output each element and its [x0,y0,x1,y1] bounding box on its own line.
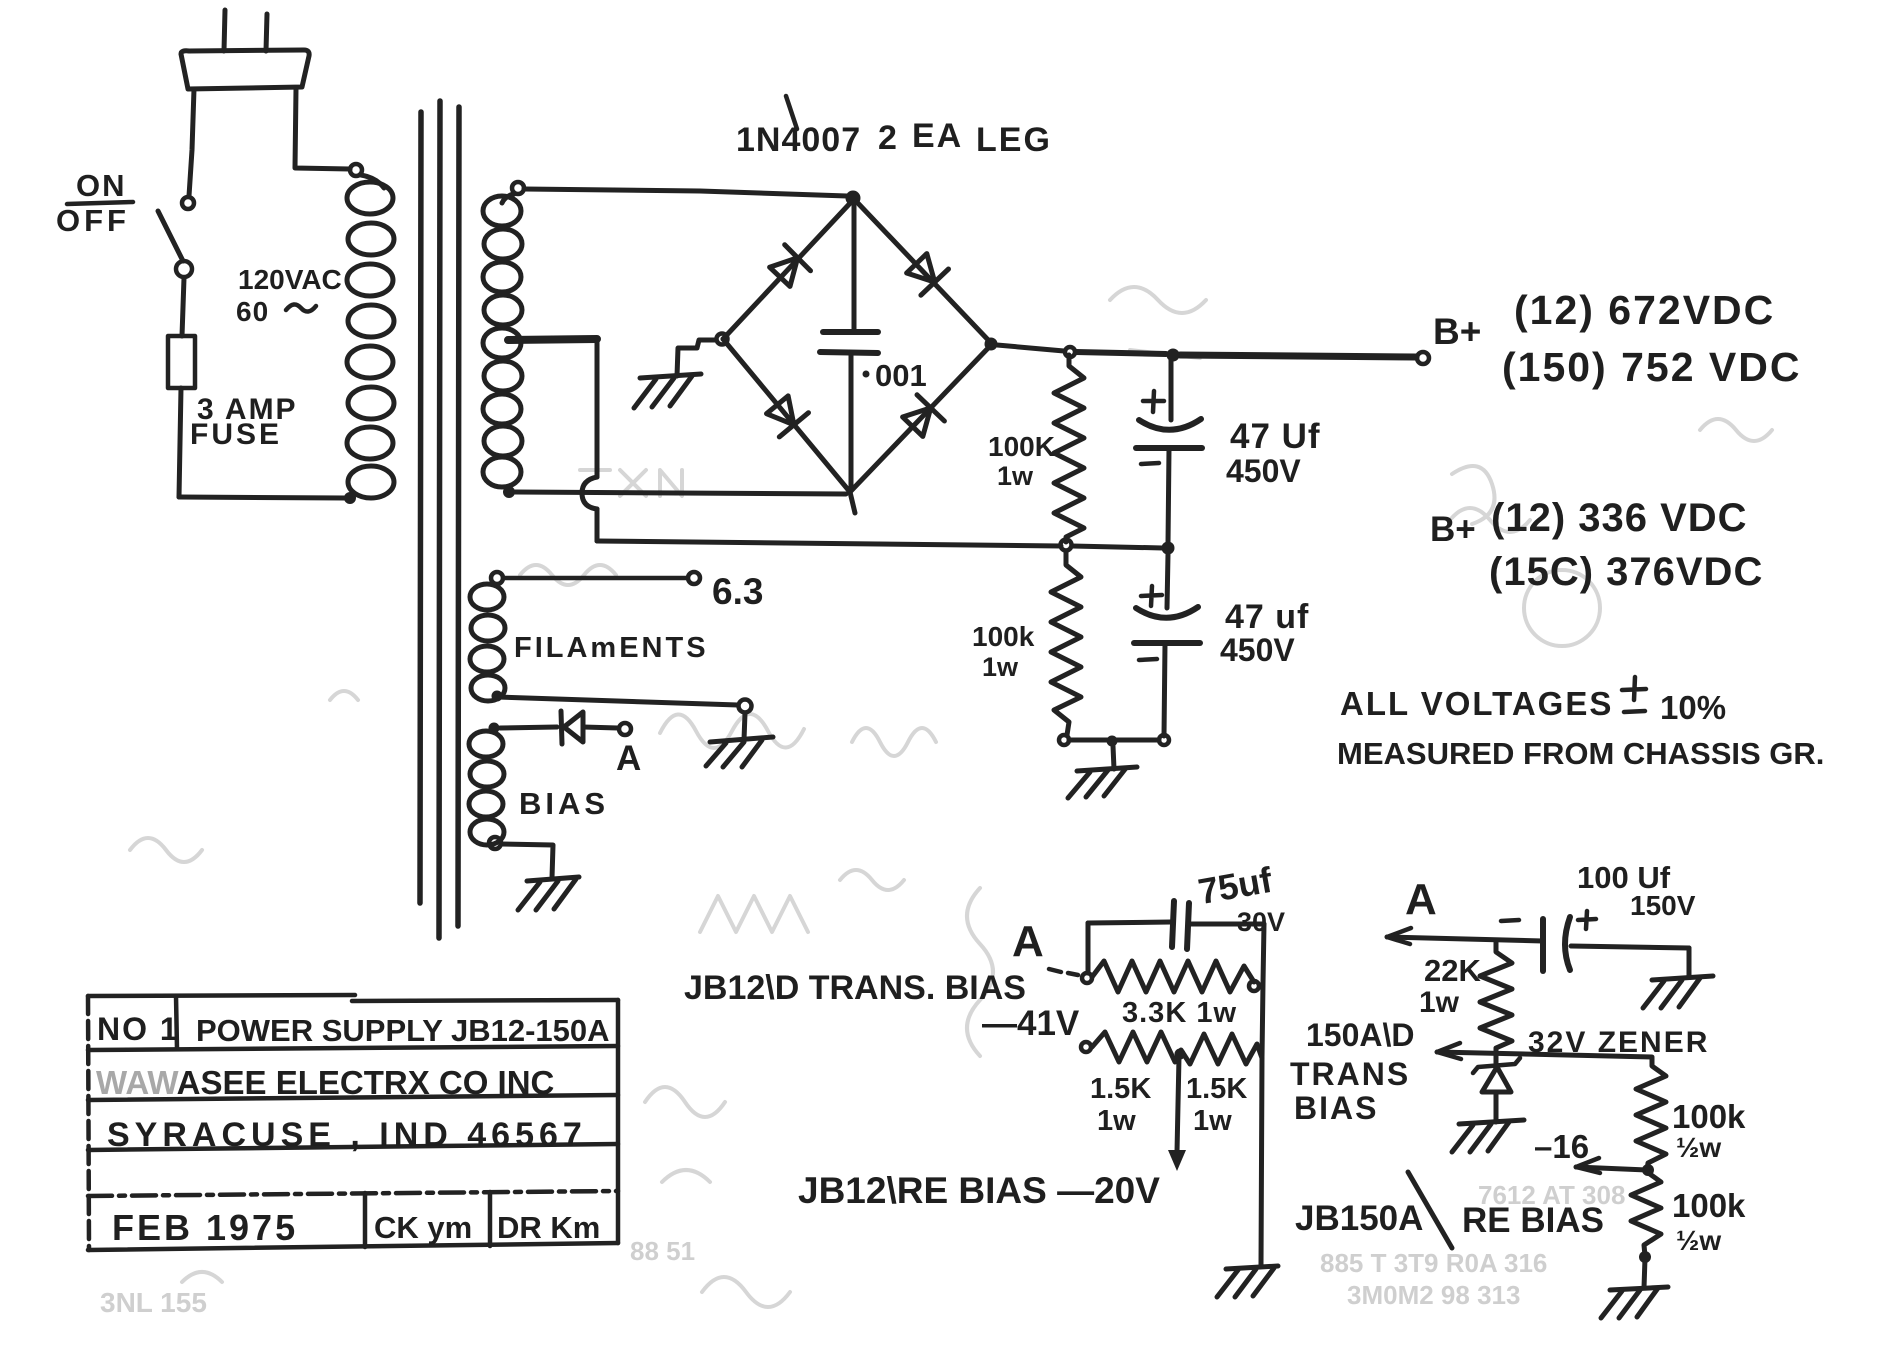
wire chain bottom to ground [1644,1258,1645,1288]
svg-text:1w: 1w [997,461,1034,491]
ground bias [518,877,579,910]
svg-text:—41V: —41V [982,1004,1080,1043]
svg-text:EA: EA [912,117,963,155]
title block frame [88,995,618,1250]
wire HV secondary top to bridge top [524,189,847,196]
capacitor C2 47uf 450V upper [1136,356,1202,544]
svg-text:CK ym: CK ym [374,1210,472,1245]
wire plug left lead to switch [189,89,194,196]
label 1.5K 1W right [1186,1073,1247,1137]
svg-text:1w: 1w [982,652,1019,682]
label 100 Uf 150V [1577,860,1696,921]
svg-text:ALL VOLTAGES: ALL VOLTAGES [1340,685,1613,722]
svg-text:POWER SUPPLY JB12-150A: POWER SUPPLY JB12-150A [196,1013,610,1048]
svg-text:450V: 450V [1220,632,1295,668]
transformer bias winding [469,723,504,850]
svg-text:100k: 100k [1672,1187,1746,1224]
svg-text:32V ZENER: 32V ZENER [1528,1026,1709,1059]
svg-text:885 T 3T9 R0A 316: 885 T 3T9 R0A 316 [1320,1248,1547,1278]
resistor R4 R5 1.5K 1.5K [1092,1032,1262,1064]
resistor R2 100k 1w lower [1051,551,1081,735]
junction chain bottom [1639,1251,1651,1263]
svg-text:100k: 100k [1672,1098,1746,1135]
junction filament bottom [492,691,503,702]
diode D2 upper-right [907,254,949,296]
label 3 AMP FUSE [190,393,298,451]
svg-text:(15C) 376VDC: (15C) 376VDC [1489,550,1763,594]
ground divider [1068,746,1137,798]
wire filament 6.3 tap [503,576,687,581]
wire bias right vertical [1261,924,1264,1266]
note all voltages [1337,677,1824,771]
svg-text:001: 001 [875,358,927,393]
label R2 100k 1w [972,621,1035,682]
svg-text:100K: 100K [988,431,1055,462]
svg-text:1w: 1w [1193,1105,1232,1137]
transformer core [420,101,459,938]
svg-text:TRANS: TRANS [1290,1056,1410,1092]
svg-text:1.5K: 1.5K [1186,1073,1247,1105]
svg-text:NO 1: NO 1 [97,1011,180,1047]
label 75uf 30V [1195,859,1285,937]
svg-text:120VAC: 120VAC [238,264,342,295]
svg-text:1.5K: 1.5K [1090,1073,1151,1105]
svg-text:A: A [1405,875,1437,924]
label B+ half voltages [1430,496,1763,594]
svg-text:1w: 1w [1419,986,1460,1019]
label 1.5K 1W left [1090,1073,1151,1137]
node divider bottom right [1159,735,1169,745]
wire diode to node A [583,727,618,728]
junction HV secondary bottom [503,486,515,498]
svg-text:MEASURED FROM CHASSIS GR.: MEASURED FROM CHASSIS GR. [1337,736,1824,771]
wire A dashes [1049,969,1078,975]
svg-text:10%: 10% [1660,689,1726,726]
resistor R7 100k half watt upper [1636,1058,1666,1170]
svg-text:100k: 100k [972,621,1035,652]
svg-text:3M0M2 98 313: 3M0M2 98 313 [1347,1280,1520,1310]
svg-text:SYRACUSE , IND 46567: SYRACUSE , IND 46567 [107,1116,587,1154]
transformer HV secondary winding [483,182,524,487]
bridge rectifier diamond [723,199,992,513]
svg-text:(150) 752 VDC: (150) 752 VDC [1502,344,1801,390]
label JB12 D TRANS BIAS [684,969,1080,1043]
svg-text:B+: B+ [1433,311,1481,352]
diode Z1 32V zener [1473,1053,1520,1122]
label R7 100k half w [1672,1098,1746,1163]
label JB150A RE BIAS [1295,1172,1604,1248]
wire -16 arrow [1576,1158,1647,1173]
capacitor C1 .001 inside bridge [820,206,878,490]
capacitor C4 75uf 30V [1088,901,1264,949]
svg-text:JB150A: JB150A [1295,1199,1423,1238]
junction -16 tap [1642,1164,1654,1176]
wire cap to ground [1687,948,1692,977]
resistor R3 3.3K 1W [1092,961,1254,992]
diode D4 lower-right [903,395,945,437]
node divider top left [1065,347,1075,357]
node bridge left [717,334,728,345]
node R3 right [1249,981,1259,991]
resistor R8 100k half watt lower [1631,1172,1661,1256]
svg-text:30V: 30V [1237,907,1285,937]
label R1 100K 1W [988,431,1055,491]
capacitor C5 100uf 150V [1501,911,1689,971]
wire plug right lead to transformer primary [295,89,350,169]
wire 150A D arrow [1437,1043,1652,1059]
svg-text:A: A [616,739,641,778]
svg-text:150A\D: 150A\D [1306,1017,1415,1053]
svg-text:FUSE: FUSE [190,418,282,451]
label R8 100k half w [1672,1187,1746,1256]
svg-text:OFF: OFF [56,203,130,238]
transformer primary winding [347,164,394,498]
svg-text:WAWASEE ELECTRX CO INC: WAWASEE ELECTRX CO INC [96,1064,554,1101]
svg-text:22K: 22K [1424,953,1481,988]
svg-text:75uf: 75uf [1195,859,1276,912]
label B+ main voltages [1433,287,1801,390]
resistor R1 100K 1W upper [1054,355,1084,542]
junction bridge top [846,191,861,206]
label C2 47 Uf 450V [1226,417,1321,489]
label 1N4007 2 EA LEG [736,96,1052,159]
transformer filament winding [470,572,505,701]
wire bottom to primary [179,497,346,498]
label 120VAC 60Hz [236,264,342,327]
ground 100uf [1643,976,1713,1008]
wire bridge left to ground [677,340,716,376]
label 22K 1W [1419,953,1481,1019]
node R4 left [1081,1042,1091,1052]
wire A arrow right section [1387,928,1543,944]
fuse F1 3 amp [168,336,195,388]
svg-text:450V: 450V [1226,453,1301,489]
terminal B+ main [1417,352,1429,364]
svg-text:½w: ½w [1676,1132,1721,1163]
svg-text:½w: ½w [1676,1225,1721,1256]
svg-text:FILAmENTS: FILAmENTS [514,632,709,664]
svg-text:JB12\D TRANS. BIAS: JB12\D TRANS. BIAS [684,969,1026,1007]
node divider middle [1061,540,1072,551]
wire -20V arrow [1168,1057,1186,1171]
ground chain bottom [1601,1287,1668,1318]
svg-text:60: 60 [236,296,269,327]
svg-text:47 Uf: 47 Uf [1230,417,1321,456]
terminal filament ground [739,700,752,713]
wire filament bottom to ground terminal [497,697,738,705]
diode D5 bias [561,711,583,744]
wire bridge right to divider top [997,345,1064,351]
svg-text:47 uf: 47 uf [1225,598,1309,636]
svg-text:ON: ON [76,168,127,203]
svg-text:1w: 1w [1097,1105,1136,1137]
wire bracket left vertical [1086,923,1091,973]
svg-text:–16: –16 [1534,1128,1589,1165]
label .001 [863,358,927,393]
wire divider top [1076,352,1166,354]
ground bridge left [634,374,701,408]
svg-text:BIAS: BIAS [1294,1090,1378,1126]
ground filament [706,713,773,767]
svg-text:FEB 1975: FEB 1975 [112,1207,298,1248]
capacitor C3 47uf 450V lower [1134,554,1200,736]
wire HV secondary center tap [508,339,1061,546]
wire bias bottom to ground [501,844,553,878]
junction divider bottom [1107,736,1118,747]
svg-text:B+: B+ [1430,510,1476,549]
svg-text:3NL 155: 3NL 155 [100,1287,207,1318]
svg-text:RE BIAS: RE BIAS [1462,1201,1604,1240]
node R3 left [1082,973,1092,983]
terminal 6.3 [688,572,700,584]
svg-text:(12) 336 VDC: (12) 336 VDC [1491,496,1748,540]
svg-text:DR Km: DR Km [497,1210,600,1245]
diode D3 lower-left [767,396,809,437]
label 150A D TRANS BIAS [1290,1017,1415,1126]
svg-text:A: A [1012,917,1044,966]
switch S1 [158,197,194,277]
wire B+ main output [1180,355,1416,357]
wire HV secondary bottom to bridge bottom [515,492,846,494]
wire fuse to primary bottom [179,388,181,497]
svg-text:88 51: 88 51 [630,1236,695,1266]
svg-text:150V: 150V [1630,890,1696,921]
svg-text:3.3K 1w: 3.3K 1w [1122,997,1237,1029]
wire divider bottom [1069,738,1159,743]
AC plug P1 [181,10,309,89]
resistor R6 22K 1W [1480,942,1512,1053]
wire divider middle to cap [1072,546,1163,548]
junction primary bottom [344,492,356,504]
terminal node A [619,723,631,735]
svg-text:6.3: 6.3 [712,571,763,612]
svg-text:JB12\RE BIAS —20V: JB12\RE BIAS —20V [798,1170,1160,1211]
junction cap C2 top [1167,349,1180,362]
wire bias to diode [500,727,557,728]
wire switch to fuse [182,278,184,336]
junction divider middle right [1162,542,1175,555]
svg-text:LEG: LEG [976,121,1052,159]
svg-text:1N4007: 1N4007 [736,121,861,159]
ground bias network [1217,1266,1278,1297]
label C3 47 uf 450V [1220,598,1309,668]
node divider bottom left [1059,735,1069,745]
diode D1 upper-left [770,245,811,287]
label ON/OFF [56,168,133,238]
svg-text:BIAS: BIAS [519,786,609,821]
junction bridge right [985,338,998,351]
junction R4 R5 middle [1175,1049,1186,1060]
ground zener [1452,1120,1524,1152]
svg-text:2: 2 [878,119,897,157]
svg-text:(12) 672VDC: (12) 672VDC [1514,287,1775,333]
